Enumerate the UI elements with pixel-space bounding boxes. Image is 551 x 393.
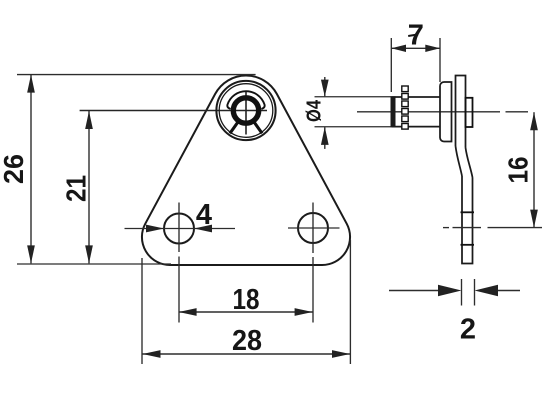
flange — [440, 82, 452, 142]
dim 2 leader left with arrow — [389, 290, 440, 292]
dim 28 line — [143, 353, 351, 355]
bend left edge — [456, 146, 463, 176]
shaft diameter extension lines — [315, 96, 393, 98]
dim 16 line — [533, 112, 535, 227]
dim 26 line — [30, 75, 32, 264]
boss inner circle — [219, 84, 273, 138]
dim 16 bottom extension line — [443, 227, 449, 229]
svg-text:28: 28 — [232, 325, 262, 357]
clip squares (groove detail) — [402, 86, 408, 129]
dim 18 line — [179, 311, 313, 313]
dim 4 arrows — [146, 225, 164, 233]
clip left leg — [230, 122, 238, 133]
clip right leg — [254, 122, 262, 133]
dim 7 extension lines — [390, 38, 392, 92]
clip upper arc — [227, 91, 264, 108]
svg-text:21: 21 — [61, 175, 92, 202]
hole left horizontal centerline / dim 4 line — [125, 228, 236, 230]
hole right horizontal centerline — [288, 227, 340, 229]
plate side view upper strip — [456, 76, 466, 148]
dim 21 line — [88, 111, 90, 263]
boss outer circle — [216, 81, 275, 140]
hole right vertical centerline — [312, 203, 314, 254]
svg-text:16: 16 — [503, 157, 534, 184]
dim 26 top extension line — [17, 74, 256, 76]
shaft bottom line — [392, 126, 440, 128]
strip tick 1 — [461, 211, 475, 213]
dim 26/21 bottom extension line — [17, 263, 171, 265]
svg-text:26: 26 — [0, 154, 29, 184]
svg-text:2: 2 — [460, 314, 476, 346]
dim 7 line — [391, 47, 440, 49]
dim 2 extension lines — [461, 279, 463, 306]
bend right edge — [466, 148, 473, 178]
rivet head — [466, 98, 473, 127]
svg-text:Ø4: Ø4 — [304, 99, 326, 122]
boss centerline horizontal (21 extension) — [80, 110, 267, 112]
plate outline (front view) — [142, 76, 350, 265]
boss centerline vertical — [245, 91, 247, 135]
hole left — [164, 214, 194, 244]
ball socket thick ring — [233, 98, 258, 123]
svg-text:4: 4 — [196, 199, 212, 231]
svg-text:18: 18 — [233, 284, 260, 316]
shaft end bar — [391, 96, 396, 127]
dim Ø4 line and arrows — [324, 77, 326, 96]
stud centerline — [357, 111, 500, 113]
dim 2 leader right with arrow — [496, 290, 520, 292]
lower strip — [462, 176, 473, 264]
strip tick 2 — [461, 244, 475, 246]
hole right — [298, 213, 328, 243]
shaft top line — [392, 96, 440, 98]
dim 28 extension lines — [141, 258, 143, 364]
hole left vertical centerline — [178, 203, 180, 253]
